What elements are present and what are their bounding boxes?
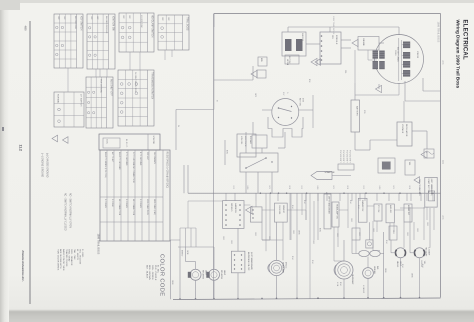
svg-text:COLOR CODE: COLOR CODE [159, 254, 165, 296]
svg-text:HM B/L: HM B/L [396, 261, 398, 267]
svg-text:CDI: CDI [331, 35, 333, 39]
svg-text:GRN: GRN [392, 230, 394, 235]
svg-text:0.2 OHMS: 0.2 OHMS [104, 199, 106, 209]
svg-text:B/W: B/W [291, 256, 293, 260]
svg-text:GRN: GRN [230, 240, 232, 245]
svg-text:PUR GRY/BRN: PUR GRY/BRN [100, 79, 102, 93]
svg-text:B/W: B/W [421, 264, 423, 268]
svg-text:GRN: GRN [186, 250, 188, 255]
svg-text:0.3 OHMS: 0.3 OHMS [139, 199, 141, 209]
svg-text:PUR - PURPLE: PUR - PURPLE [154, 265, 156, 281]
svg-text:R/W W/G BRN Y: R/W W/G BRN Y [349, 150, 351, 164]
svg-text:BRN: BRN [442, 160, 444, 165]
svg-text:TWO COLOR WIRES: TWO COLOR WIRES [57, 249, 59, 271]
svg-text:B/W: B/W [268, 186, 270, 190]
svg-text:B/W: B/W [308, 79, 310, 83]
svg-text:11.2: 11.2 [19, 145, 23, 152]
svg-text:GRN: GRN [171, 280, 173, 285]
svg-text:R/W: R/W [363, 110, 365, 114]
svg-text:GRN: GRN [222, 236, 224, 241]
svg-text:KEY SW: KEY SW [299, 98, 301, 106]
svg-text:B/W: B/W [319, 228, 321, 232]
svg-text:B/W: B/W [349, 200, 351, 204]
svg-text:W: W [216, 100, 218, 102]
svg-text:0.3 OHM: 0.3 OHM [111, 199, 113, 207]
svg-text:1999 TRAIL BOSS: 1999 TRAIL BOSS [437, 22, 440, 43]
svg-text:REVERSE: REVERSE [220, 270, 222, 280]
svg-text:B/W: B/W [401, 264, 403, 268]
svg-text:GRN: GRN [292, 230, 294, 235]
svg-text:W: W [177, 125, 179, 127]
svg-text:B/ - BLU: B/ - BLU [157, 265, 159, 274]
svg-text:BRN - BROWN: BRN - BROWN [148, 265, 150, 280]
svg-text:SPEEDO: SPEEDO [230, 203, 232, 212]
svg-text:LOW OIL: LOW OIL [240, 136, 242, 145]
svg-text:GRN: GRN [358, 232, 360, 237]
svg-text:GRN: GRN [372, 228, 374, 233]
svg-text:GRN - GREEN: GRN - GREEN [151, 265, 153, 280]
svg-text:ELECTRICAL: ELECTRICAL [462, 20, 468, 60]
svg-text:6300 OHMS PLUS: 6300 OHMS PLUS [146, 199, 148, 216]
svg-text:R/W: R/W [300, 186, 302, 190]
svg-text:B/W: B/W [303, 200, 305, 204]
svg-text:R/W: R/W [418, 186, 420, 190]
svg-text:OIL LEVEL: OIL LEVEL [278, 205, 280, 214]
svg-text:GRN: GRN [336, 233, 338, 238]
svg-text:R/W W/G BRN Y: R/W W/G BRN Y [345, 150, 347, 164]
svg-text:GRN: GRN [312, 240, 314, 245]
svg-text:GRN: GRN [442, 60, 444, 65]
svg-text:IGN COIL: IGN COIL [301, 33, 303, 41]
svg-text:B/W: B/W [226, 150, 228, 154]
svg-text:SENSOR: SENSOR [282, 205, 284, 214]
svg-text:KEY SWITCH: KEY SWITCH [80, 16, 82, 31]
svg-text:GRN: GRN [426, 222, 428, 227]
svg-text:0.3 OHMS: 0.3 OHMS [125, 199, 127, 209]
svg-text:PTO SW: PTO SW [377, 205, 379, 213]
svg-text:GRN: GRN [411, 273, 413, 278]
svg-text:Polaris Industries Inc.: Polaris Industries Inc. [21, 251, 25, 282]
svg-text:DIMMER SW: DIMMER SW [361, 200, 363, 211]
svg-text:B/W: B/W [385, 240, 387, 244]
svg-text:Wiring Diagram 1999 Trail Boss: Wiring Diagram 1999 Trail Boss [456, 20, 461, 89]
svg-text:ENGINE: ENGINE [362, 39, 364, 47]
svg-text:B/W: B/W [282, 92, 284, 96]
svg-text:GRN: GRN [442, 215, 444, 220]
svg-text:COIL: COIL [106, 139, 108, 145]
svg-text:R - RED: R - RED [81, 249, 83, 258]
svg-text:BLK RED W/R: BLK RED W/R [74, 16, 76, 30]
svg-text:GRN: GRN [350, 218, 352, 223]
svg-text:B/W: B/W [332, 186, 334, 190]
svg-text:BLK/R TO BRN/W (LTG COIL): BLK/R TO BRN/W (LTG COIL) [104, 152, 106, 178]
svg-text:YEL: YEL [344, 70, 346, 74]
svg-text:GRN: GRN [298, 230, 300, 235]
svg-text:BRN/W: BRN/W [181, 250, 183, 257]
svg-text:IGNITION SW: IGNITION SW [112, 16, 114, 31]
svg-text:HI TEN: HI TEN [286, 59, 288, 66]
svg-text:(HI/LO): (HI/LO) [285, 262, 287, 269]
svg-text:W - WHITE: W - WHITE [76, 249, 78, 261]
svg-text:R/W W/G BRN Y: R/W W/G BRN Y [342, 150, 344, 164]
svg-text:B1 R1 Y1: B1 R1 Y1 [125, 139, 127, 148]
svg-text:LIT SWITCH: LIT SWITCH [80, 94, 82, 107]
svg-text:BLK BRN R/W BLK: BLK BRN R/W BLK [105, 16, 107, 34]
svg-text:R/W: R/W [232, 186, 234, 190]
svg-text:B/LT SW: B/LT SW [288, 56, 290, 64]
svg-text:B/W: B/W [392, 186, 394, 190]
svg-text:LO OFF COM: LO OFF COM [140, 15, 142, 28]
svg-text:GRN: GRN [268, 236, 270, 241]
svg-text:GRN: GRN [416, 228, 418, 233]
svg-text:PRI WHT: PRI WHT [146, 152, 148, 161]
svg-text:R/W: R/W [362, 186, 364, 190]
svg-text:REVERSE: REVERSE [202, 270, 204, 280]
svg-text:(—) ENGINE GROUND: (—) ENGINE GROUND [41, 153, 43, 177]
svg-text:COILS: COILS [394, 50, 396, 56]
svg-text:W GRN T BLK/W PUR: W GRN T BLK/W PUR [134, 72, 136, 93]
svg-text:BLK/R TO GROUND: BLK/R TO GROUND [118, 152, 120, 170]
svg-text:GRN: GRN [254, 232, 256, 237]
svg-text:R TO GROUND: R TO GROUND [125, 152, 127, 166]
svg-text:MODULE: MODULE [335, 35, 337, 45]
svg-text:B/W: B/W [311, 260, 313, 264]
svg-text:GRN: GRN [384, 268, 386, 273]
svg-text:R/W W/G BRN Y: R/W W/G BRN Y [339, 150, 341, 164]
svg-text:NO CONNECTION: NO CONNECTION [118, 199, 120, 216]
svg-text:B/W: B/W [339, 282, 341, 286]
svg-text:W TO GROUND NO CONNECTION: W TO GROUND NO CONNECTION [132, 152, 134, 183]
svg-text:1999 TRAIL BOSS: 1999 TRAIL BOSS [97, 234, 100, 255]
svg-text:YEL - YELLOW: YEL - YELLOW [79, 249, 81, 265]
svg-text:B/W: B/W [291, 205, 293, 209]
svg-text:B TO GROUND: B TO GROUND [139, 152, 141, 166]
svg-text:B/W: B/W [357, 205, 359, 209]
svg-text:NO CONNECTION: NO CONNECTION [132, 199, 134, 216]
svg-text:GRN: GRN [406, 232, 408, 237]
